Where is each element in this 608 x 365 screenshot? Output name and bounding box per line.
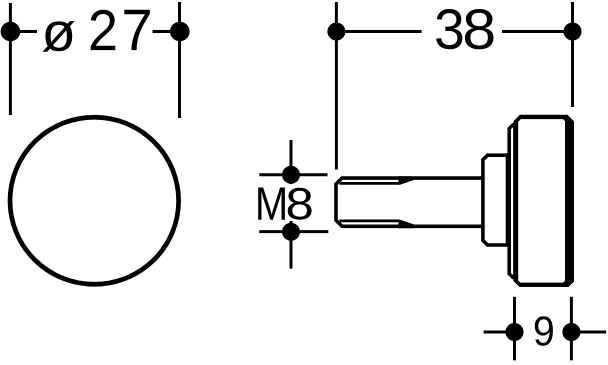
dim M8: value label xyxy=(258,188,285,220)
dim M8: upper vertical line xyxy=(290,140,293,184)
dim 38: left dot terminator xyxy=(327,23,345,41)
dim 9: left extension line xyxy=(513,297,516,361)
dim 9: right dot terminator xyxy=(562,323,580,341)
side view: thread root line bottom xyxy=(340,220,401,223)
side view: thread root line top xyxy=(340,182,401,185)
dim o27: value label digit 7 xyxy=(124,10,150,50)
dim 38: dimension line right segment xyxy=(502,30,573,33)
side view: knob head (outer black) xyxy=(513,115,574,287)
dim 9: value label xyxy=(535,316,553,346)
dim ø27: dimension line right segment xyxy=(153,30,180,33)
dim M8: top horizontal line xyxy=(259,173,327,176)
dim ø27: dimension line left segment xyxy=(10,30,37,33)
dim M8: bottom dot terminator xyxy=(282,223,300,241)
side view: collar xyxy=(483,155,508,245)
side view: knob head (inner white face) xyxy=(518,119,565,283)
dim ø27: value label xyxy=(43,21,75,52)
dim 38: right extension line xyxy=(571,2,574,107)
dim ø27: left dot terminator xyxy=(1,22,21,42)
dim 38: dimension line left segment xyxy=(336,30,421,33)
side view: back ring band xyxy=(509,125,515,278)
dim M8: top dot terminator xyxy=(282,166,300,184)
front view circle (knob face, ø27) xyxy=(10,117,179,284)
dim M8: value label glyph 8 xyxy=(288,188,312,220)
dim 38: value label xyxy=(436,9,462,49)
dim 38: value label digit 8 xyxy=(465,9,494,49)
dim 38: right dot terminator xyxy=(564,23,582,41)
dim 9: left dot terminator xyxy=(506,323,524,341)
dim ø27: right dot terminator xyxy=(170,22,190,42)
dim ø27: left extension line xyxy=(9,3,12,115)
dim 38: left extension line xyxy=(335,2,338,170)
side view: threaded stem outline xyxy=(336,178,486,226)
dim 9: right dimension line xyxy=(571,331,606,334)
dim 9: right extension line xyxy=(570,297,573,361)
dim M8: lower vertical line xyxy=(290,221,293,269)
dim M8: bottom horizontal line xyxy=(259,230,328,233)
side view: thread runout wedge bottom xyxy=(399,220,414,229)
dim 9: left dimension line xyxy=(484,331,515,334)
side view: thread runout wedge top xyxy=(399,176,414,185)
dim ø27: right extension line xyxy=(178,2,181,118)
